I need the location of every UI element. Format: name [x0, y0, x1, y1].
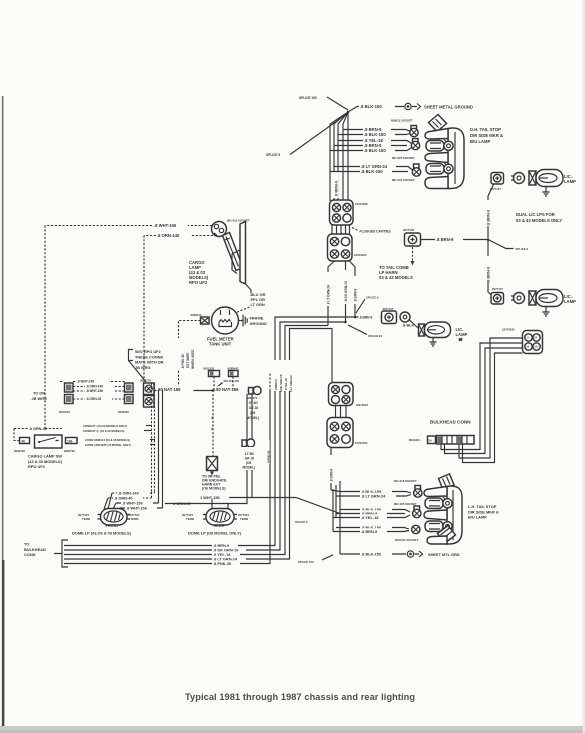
ground G3 lic lamp 2	[543, 307, 550, 316]
svg-text:.8 BLK-150: .8 BLK-150	[360, 104, 382, 109]
cargo lamp switch terminal 140	[64, 438, 77, 454]
svg-text:SPLICE 9: SPLICE 9	[266, 153, 280, 157]
wire label .8 BRN-9 rotated on bundle	[333, 172, 339, 198]
node splice 150 junction	[347, 111, 350, 114]
node splice junction right	[487, 238, 490, 241]
svg-text:.8 BRN-9: .8 BRN-9	[436, 237, 454, 242]
connector 8911220	[204, 367, 220, 390]
svg-text:.80 NAT-156: .80 NAT-156	[215, 387, 239, 392]
svg-text:RPO UF2: RPO UF2	[28, 464, 46, 469]
wire bundle vertical 5	[347, 112, 349, 201]
connector 2977158	[403, 228, 421, 246]
svg-text:DIR SIDE MKR &: DIR SIDE MKR &	[470, 133, 503, 138]
svg-text:DR J8: DR J8	[249, 406, 258, 410]
connector 12014788	[330, 200, 368, 225]
wire .8 ORN-40 jb row4	[73, 395, 125, 400]
lh socket S6	[412, 525, 420, 533]
wire .8 BRN-9 horizontal to lic splice	[421, 236, 489, 242]
svg-text:2977158: 2977158	[403, 228, 414, 232]
svg-text:DUAL LIC LPS FOR: DUAL LIC LPS FOR	[516, 212, 555, 217]
wire bundle vertical 1	[330, 112, 348, 201]
wire .8 LT GRN-24 row3	[334, 164, 413, 170]
wire bundle vertical 2	[334, 112, 348, 201]
svg-text:12010624: 12010624	[354, 253, 367, 257]
svg-text:40: 40	[22, 439, 26, 443]
node splice dkgrn	[344, 321, 347, 324]
svg-text:881-023 SOCKET: 881-023 SOCKET	[227, 219, 250, 223]
svg-text:SPLICE 24: SPLICE 24	[368, 334, 382, 338]
bus label .8 YEL-18	[212, 551, 240, 557]
svg-text:WHEN USED: WHEN USED	[191, 349, 195, 369]
front dome terminal labels	[78, 513, 140, 521]
wire .8 BRN-9 row1	[343, 127, 410, 133]
connector 2977176	[140, 379, 154, 408]
svg-text:.8 BRN-9: .8 BRN-9	[486, 266, 491, 283]
svg-text:891-018 SOCKET: 891-018 SOCKET	[394, 479, 417, 483]
front dome wire .8 ORN-140	[108, 490, 155, 509]
lic lamp socket SK1 2977127	[490, 173, 504, 192]
wire dashed vertical orn-140	[143, 236, 145, 384]
lh wire .8 BLK-150 row2	[340, 506, 410, 512]
splice 9 mid label	[356, 296, 379, 314]
svg-text:.8 DK GRN-19: .8 DK GRN-19	[344, 281, 348, 302]
bulkhead connector 8911934	[409, 436, 474, 445]
lh ground wire .8 BLK-150	[340, 551, 406, 557]
svg-text:8T 8O: 8T 8O	[249, 401, 258, 405]
svg-text:REAR: REAR	[214, 523, 225, 528]
wire .8 BRN-9 to rear lic lamp	[355, 314, 382, 320]
wire .8 BRN-9 row2	[334, 143, 407, 148]
svg-text:W/O RPO UF2: W/O RPO UF2	[135, 349, 162, 354]
svg-text:.8 ORN-40: .8 ORN-40	[86, 397, 101, 401]
svg-text:BULKHEAD CONN: BULKHEAD CONN	[430, 420, 471, 425]
connector 6288472 second bullet	[242, 394, 255, 452]
svg-text:.8 BRN-9: .8 BRN-9	[361, 529, 378, 534]
ground G2 lic lamp 1	[543, 187, 550, 196]
cargo lamp socket	[212, 222, 227, 237]
lic lamp socket SK2 2977127	[491, 287, 504, 304]
wire dashed to tail comb harness	[411, 247, 415, 266]
svg-text:2962792: 2962792	[14, 449, 25, 453]
svg-text:LAMP: LAMP	[564, 299, 576, 304]
bulkhead wire 3	[459, 338, 523, 458]
fuel meter blu note	[235, 292, 266, 313]
svg-text:CONN 6298144 (03 & 06 MODELS): CONN 6298144 (03 & 06 MODELS)	[85, 438, 130, 442]
svg-text:SPLICE 9: SPLICE 9	[516, 247, 529, 251]
wire .80 NAT-156 left	[154, 386, 213, 392]
wire .8 WHT-156 dashed from cargo lamp	[45, 222, 212, 228]
rear dome caption	[188, 523, 242, 536]
fuel meter connector 6288443	[191, 313, 210, 324]
svg-text:CONN 12004335 (43 MODEL ONLY): CONN 12004335 (43 MODEL ONLY)	[85, 443, 131, 447]
R.H. tail lamp finger bottom	[425, 177, 448, 189]
svg-text:THESE CONNS: THESE CONNS	[135, 354, 164, 359]
wire .8 WHT-156 jb row1	[60, 378, 125, 383]
L.H. lamp bulb B4	[425, 521, 452, 532]
connector 6288443 inline	[228, 367, 239, 390]
fuel meter tank unit	[212, 307, 239, 335]
L.H. tail lamp housing spine	[447, 486, 462, 544]
L.H. lamp bulb B3	[425, 497, 452, 509]
svg-text:2977127: 2977127	[492, 287, 503, 291]
lt 8b dr jb note	[241, 447, 263, 470]
wire dashed ext pnk-30	[179, 321, 201, 391]
svg-text:.8 BLK-150: .8 BLK-150	[364, 148, 386, 153]
R.H. tail lamp housing spine	[448, 128, 464, 189]
svg-text:L.H. TAIL STOP: L.H. TAIL STOP	[468, 504, 497, 509]
connector 12070630	[502, 328, 543, 354]
svg-text:LT GRN: LT GRN	[251, 302, 265, 307]
svg-text:12015624: 12015624	[356, 403, 369, 407]
R.H. lamp bulb B1	[426, 140, 453, 152]
svg-text:2: 2	[211, 416, 213, 420]
lh feed vertical 3	[332, 489, 334, 532]
svg-text:DOME LP (43,O6 & 03 MODELS): DOME LP (43,O6 & 03 MODELS)	[72, 531, 132, 536]
svg-text:TANK UNIT: TANK UNIT	[209, 342, 232, 347]
svg-text:RPO UF2: RPO UF2	[189, 280, 208, 285]
svg-text:.8 WHT-156: .8 WHT-156	[126, 505, 148, 510]
node splice brn9	[354, 316, 357, 319]
splice 150 label	[299, 96, 348, 110]
wire .8 BRN-9 below connector D	[328, 448, 334, 491]
lic lamp bulb BL1	[511, 173, 525, 184]
front dome caption	[72, 523, 132, 536]
bus wire .8 YEL-18	[64, 326, 328, 555]
bus label .8 LT GRN-24	[212, 556, 246, 562]
conduit note lines	[83, 424, 155, 447]
wire .8 BLK-150 to sheet metal ground	[348, 103, 404, 112]
wire .8 BRN-9 from lic socket 1 down	[485, 185, 494, 239]
svg-text:SPLICE 156: SPLICE 156	[224, 379, 240, 383]
cargo lamp switch caption	[28, 454, 63, 470]
wire .8 LT GRN-24 below connector B	[325, 261, 335, 326]
svg-text:(O6: (O6	[250, 411, 256, 415]
svg-text:2977176: 2977176	[140, 379, 151, 383]
svg-text:6294115 SOCKET: 6294115 SOCKET	[395, 538, 418, 542]
lh wire .8 YEL-18 row2	[333, 514, 410, 520]
wire .8 BLK-150 row1	[338, 132, 410, 137]
rear dome feed 1 wht-156	[199, 394, 252, 509]
svg-text:8 BRN-9: 8 BRN-9	[274, 379, 278, 390]
svg-text:SPLICE 150: SPLICE 150	[298, 560, 314, 564]
wires between connectors A and B	[332, 225, 350, 234]
wire .8 ORN-140 jb row2	[73, 383, 125, 388]
lh feed vertical 1	[331, 481, 340, 554]
svg-text:.8 ORN-40: .8 ORN-40	[29, 426, 48, 431]
L.H. tail lamp finger mid	[424, 510, 447, 520]
wire .8 YEL-18 row2	[338, 138, 412, 144]
node splice 156	[212, 389, 215, 392]
svg-text:8 PNK-30: 8 PNK-30	[267, 450, 271, 463]
rear dome feed 1 orn-40	[165, 447, 247, 509]
svg-text:.8 LT GRN-24: .8 LT GRN-24	[327, 285, 331, 305]
svg-text:03 & 43 MODELS: 03 & 43 MODELS	[379, 275, 413, 280]
w/o rpo uf2 note	[129, 349, 164, 382]
lic lamp bulb BL2	[511, 293, 525, 304]
svg-text:SHEET METAL GROUND: SHEET METAL GROUND	[424, 104, 473, 109]
front dome wire .8 ORN-40	[104, 492, 152, 509]
wire .8 ORN-40 to cargo switch	[14, 426, 62, 441]
R.H. tail lamp connector plug	[429, 115, 447, 132]
cargo lamp switch terminal 40	[14, 438, 30, 454]
svg-text:1 WHT-156: 1 WHT-156	[200, 495, 221, 500]
bus wire .8 DK GRN-19	[64, 322, 346, 550]
bus label .8 BRN-9	[212, 542, 238, 548]
wire .8 DK GRN-19 below connector B	[342, 261, 348, 322]
wire .8 BLK rear lic	[402, 320, 418, 328]
svg-text:.8 BRN-9: .8 BRN-9	[486, 209, 491, 226]
wire bundle vertical 4	[343, 112, 348, 201]
R.H. tail lamp finger top	[425, 129, 448, 140]
svg-text:DIR SIDE MKR &: DIR SIDE MKR &	[468, 509, 499, 514]
svg-text:891-025 SOCKET: 891-025 SOCKET	[392, 156, 415, 160]
dual lic lamps caption	[516, 212, 562, 223]
ground G4 rear lic lamp	[430, 338, 463, 347]
svg-text:MODEL): MODEL)	[247, 416, 260, 420]
svg-text:TO: TO	[24, 542, 29, 547]
svg-text:03 & 43 MODELS ONLY: 03 & 43 MODELS ONLY	[516, 218, 562, 223]
bus wire .8 LT GRN-24	[64, 329, 332, 560]
svg-text:8 DK GRN-19: 8 DK GRN-19	[279, 374, 283, 392]
conduit wire 3	[158, 390, 160, 503]
svg-text:JB WRG: JB WRG	[32, 396, 48, 401]
to rr pnl connector box	[207, 394, 218, 471]
wire .8 ORN-140 dashed from cargo lamp	[144, 232, 213, 238]
svg-text:TERM: TERM	[82, 517, 91, 521]
svg-text:DR J8: DR J8	[245, 457, 254, 461]
svg-text:8911934: 8911934	[409, 438, 420, 442]
svg-text:12070630: 12070630	[502, 328, 515, 332]
svg-text:CONDUIT (40 (03 MODELS ONLY): CONDUIT (40 (03 MODELS ONLY)	[83, 424, 127, 428]
bulkhead wire 1	[441, 343, 523, 450]
svg-text:MATE WITH DR: MATE WITH DR	[135, 360, 164, 365]
wire .8 BRN-9 below connector B	[350, 261, 358, 317]
svg-text:.8 BRN-9: .8 BRN-9	[334, 180, 339, 197]
lic lamp caption 2	[564, 294, 576, 304]
svg-text:.8 PNK-30: .8 PNK-30	[181, 354, 185, 369]
bulkhead wire 2	[445, 348, 523, 454]
R.H. tail lamp finger mid	[425, 153, 448, 163]
wire .8 BLK-150 row2	[330, 148, 412, 154]
ground G6 sheet mtl grd	[407, 551, 460, 557]
lh wire .8 BRN-9 row3	[333, 528, 409, 534]
connector 12015784	[327, 418, 368, 448]
svg-text:8 YEL-18: 8 YEL-18	[284, 378, 288, 390]
svg-text:TERM: TERM	[186, 517, 195, 521]
lh wire .8 LT GRN-24 row1	[336, 493, 411, 499]
svg-text:.8 BRN-9: .8 BRN-9	[359, 315, 373, 319]
splice 150 lower label	[298, 555, 333, 564]
bus wire .8 PNK-30	[64, 391, 270, 564]
svg-text:(43 & 03 MODELS): (43 & 03 MODELS)	[28, 459, 63, 464]
connector 12015624	[329, 383, 369, 408]
svg-text:E: E	[228, 307, 230, 311]
to rr pnl caption	[202, 475, 227, 491]
svg-text:.8 WHT-156: .8 WHT-156	[77, 379, 94, 383]
svg-text:.8 BLK-150: .8 BLK-150	[361, 552, 381, 557]
lic lamp caption 1	[564, 174, 576, 184]
svg-text:.8 ORN-140: .8 ORN-140	[157, 233, 180, 238]
R.H. tail lamp caption	[470, 127, 503, 144]
to rr pnl arrow	[210, 471, 214, 476]
splice 24 label	[348, 325, 382, 338]
ground G5 frame ground	[239, 315, 267, 327]
socket S3 tail lamp	[412, 164, 420, 176]
svg-text:2962792: 2962792	[64, 449, 75, 453]
lh wire .8 BLK-150 row3	[336, 524, 409, 530]
wire bundle vertical 3	[338, 112, 348, 201]
svg-text:TERM: TERM	[131, 517, 140, 521]
svg-text:8 LT GRN-24: 8 LT GRN-24	[289, 375, 293, 392]
svg-text:.8 LT GRN-24: .8 LT GRN-24	[361, 494, 386, 499]
svg-text:PLUGGED CAVITIES: PLUGGED CAVITIES	[360, 230, 391, 234]
cargo lamp switch body	[35, 435, 63, 448]
front dome wire .8 WHT-156 a	[113, 500, 159, 509]
R.H. lamp bulb B2	[426, 163, 453, 175]
lic lamp housing H1	[529, 170, 563, 187]
svg-text:FRAME: FRAME	[250, 316, 264, 321]
svg-text:LT 8B: LT 8B	[245, 452, 254, 456]
splice 9 upper label and leader	[266, 113, 348, 157]
conduit dashed wire 2	[154, 383, 156, 492]
bus wire .8 BRN-9	[64, 317, 355, 546]
svg-text:(O6: (O6	[246, 461, 252, 465]
svg-text:CONDUIT (L (43 & 06 MODELS): CONDUIT (L (43 & 06 MODELS)	[83, 429, 124, 433]
svg-text:(O6 MODELS): (O6 MODELS)	[202, 487, 226, 491]
socket S1 tail lamp	[410, 126, 418, 137]
svg-text:.8 WHT-156: .8 WHT-156	[154, 223, 177, 228]
connector 12010624	[328, 234, 367, 261]
svg-text:.8 BLK-150: .8 BLK-150	[364, 132, 386, 137]
conduit wire 4	[162, 390, 164, 508]
svg-text:MODEL): MODEL)	[243, 466, 256, 470]
ext wire note rotated	[175, 338, 195, 370]
L.H. tail lamp finger top	[424, 487, 447, 497]
svg-text:CARGO LAMP SW: CARGO LAMP SW	[28, 454, 62, 459]
L.H. tail lamp caption	[468, 504, 499, 520]
svg-text:12015784: 12015784	[355, 441, 368, 445]
lh socket S5	[413, 506, 421, 518]
wire dashed vertical wht-156	[44, 226, 46, 429]
svg-text:B/U LAMP: B/U LAMP	[468, 515, 487, 520]
splice 9 lower diagonal	[252, 498, 340, 525]
svg-text:SPLICE 9: SPLICE 9	[295, 520, 308, 524]
dr jb note 1	[245, 399, 263, 420]
wires between connectors C and D	[336, 406, 347, 418]
svg-text:DOME LP (O6 MODEL ONLY): DOME LP (O6 MODEL ONLY)	[188, 531, 242, 536]
bulkhead wire 4	[463, 353, 523, 463]
svg-text:B/U LAMP: B/U LAMP	[470, 139, 490, 144]
svg-text:SHEET MTL GRD: SHEET MTL GRD	[428, 552, 460, 557]
splice 156 label	[214, 379, 239, 390]
bus label .8 DK GRN-19	[212, 547, 246, 553]
wire .8 BLK-150 row3	[330, 169, 408, 174]
svg-text:SPLICE 9: SPLICE 9	[366, 296, 379, 300]
fuel meter caption	[207, 337, 234, 347]
svg-text:24: 24	[429, 439, 433, 443]
svg-text:6294545: 6294545	[118, 410, 129, 414]
svg-text:LAMP: LAMP	[456, 332, 468, 337]
bus pnk rotated label	[265, 440, 271, 464]
svg-text:TERM: TERM	[240, 517, 249, 521]
svg-text:12014788: 12014788	[355, 202, 368, 206]
L.H. tail lamp connector plug	[439, 474, 455, 490]
connector stack 6294545	[118, 383, 133, 414]
svg-text:TO DR: TO DR	[33, 391, 45, 396]
lh wire .8 BLK-150 row1	[340, 488, 411, 494]
front dome lamp	[98, 509, 131, 526]
lic lamp housing H2	[529, 290, 563, 307]
to bulkhead conn bracket	[24, 540, 68, 567]
connector stack 6294542	[59, 383, 73, 414]
svg-text:.8 BLK-150: .8 BLK-150	[361, 169, 383, 174]
svg-text:.8 BRN-9: .8 BRN-9	[330, 468, 334, 482]
connector 6288472 bullet	[247, 387, 262, 401]
rear lic lamp bulb	[400, 312, 410, 322]
svg-text:6294542: 6294542	[59, 410, 70, 414]
svg-text:.8 YEL-18: .8 YEL-18	[361, 515, 379, 520]
svg-text:.8 BRN-9: .8 BRN-9	[354, 288, 358, 302]
svg-text:140: 140	[67, 439, 73, 443]
plugged cavities label	[352, 228, 391, 234]
svg-text:Typical 1981 through 1987 chas: Typical 1981 through 1987 chassis and re…	[185, 692, 415, 702]
svg-text:JB WRG: JB WRG	[135, 365, 151, 370]
L.H. tail lamp bottom finger	[427, 536, 447, 544]
rear dome terminal labels	[182, 513, 249, 521]
rear lic lamp socket 2977127	[382, 307, 397, 324]
svg-text:D.H. TAIL STOP: D.H. TAIL STOP	[470, 127, 501, 132]
svg-text:.8 PNK-30: .8 PNK-30	[213, 561, 231, 566]
svg-text:891-034 SOCKET: 891-034 SOCKET	[392, 178, 415, 182]
socket S2 tail lamp	[411, 139, 419, 150]
bus label .8 PNK-30	[212, 560, 240, 566]
wire .8 BRN-9 down to lic lamp 2	[485, 240, 494, 298]
rear lic lamp housing	[419, 322, 451, 338]
wire .8 WHT-156 jb row3	[73, 387, 125, 392]
svg-text:CONN: CONN	[24, 552, 36, 557]
front dome wire .8 WHT-156 b	[118, 505, 163, 511]
svg-text:EXT WIRE: EXT WIRE	[186, 353, 190, 368]
lh feed vertical 2	[335, 485, 337, 518]
rear lic lamp caption	[456, 327, 468, 337]
splice 9 right leader	[488, 240, 528, 252]
to tail comb caption	[379, 265, 413, 280]
svg-text:GROUND: GROUND	[250, 321, 267, 326]
to dr jb wrg caption	[32, 391, 48, 401]
svg-text:.80 NAT-156: .80 NAT-156	[157, 387, 181, 392]
L.H. lamp backup diagonal	[438, 526, 456, 544]
svg-text:FRONT: FRONT	[106, 523, 120, 528]
svg-text:2: 2	[211, 427, 213, 431]
rear dome lamp	[203, 509, 237, 526]
bus rotated labels	[272, 360, 293, 392]
cargo lamp caption	[189, 260, 209, 285]
svg-text:LAMP: LAMP	[564, 179, 576, 184]
cargo lamp bracket	[232, 222, 251, 294]
svg-text:.8 BLK: .8 BLK	[402, 323, 415, 328]
lh socket S4	[414, 486, 422, 498]
svg-text:.8 WHT-156: .8 WHT-156	[86, 389, 103, 393]
cargo lamp stalk	[223, 233, 244, 271]
svg-text:629013 SOCKET: 629013 SOCKET	[391, 119, 413, 123]
svg-text:SPLICE 150: SPLICE 150	[299, 96, 317, 100]
conduit dashed wire 1	[151, 383, 153, 492]
svg-text:BULKHEAD: BULKHEAD	[24, 547, 46, 552]
ground G1 sheet metal ground	[405, 103, 473, 109]
wire .80 NAT-156 right	[213, 386, 249, 392]
lh wire .8 BRN-9 row2	[336, 510, 405, 516]
